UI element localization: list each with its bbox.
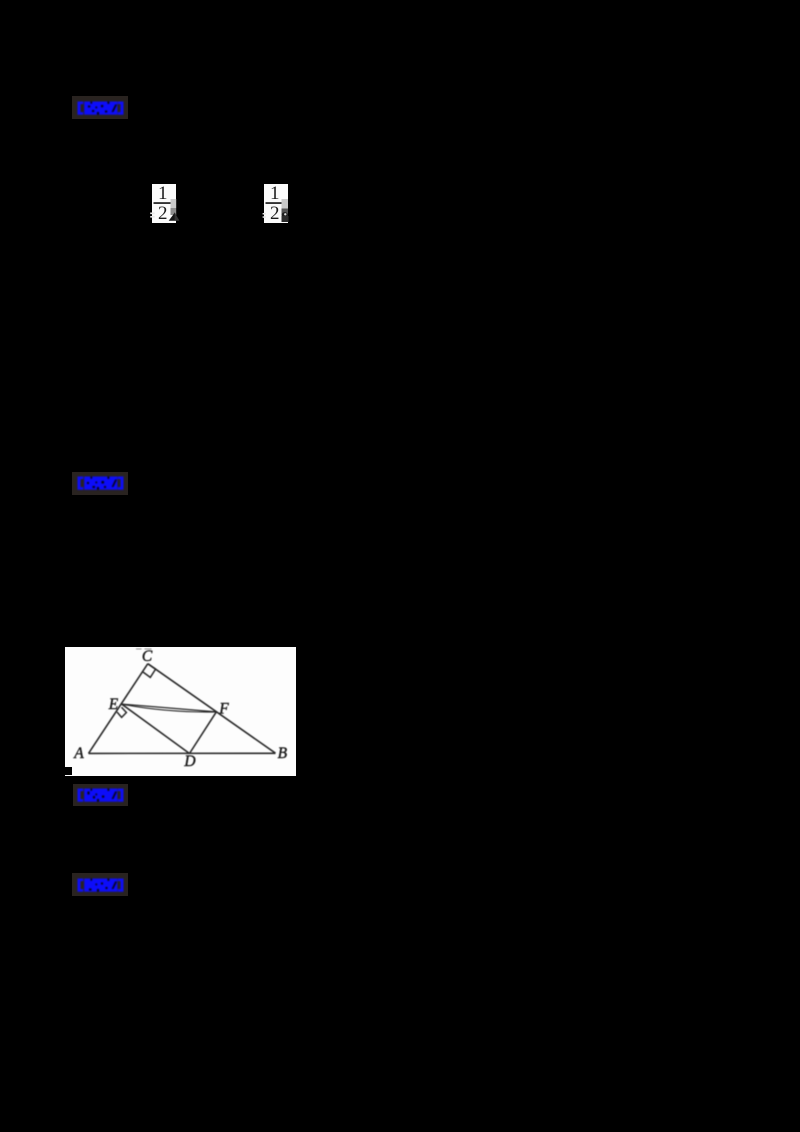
svg-text:F: F <box>218 700 229 717</box>
svg-text:E: E <box>108 696 119 713</box>
svg-text:2: 2 <box>270 203 280 224</box>
svg-text:B: B <box>278 745 288 762</box>
svg-text:D: D <box>183 753 195 770</box>
svg-text:C: C <box>142 648 153 665</box>
svg-text:A: A <box>73 745 84 762</box>
svg-text:1: 1 <box>270 183 280 204</box>
svg-text:1: 1 <box>158 183 168 204</box>
svg-text:2: 2 <box>158 203 168 224</box>
